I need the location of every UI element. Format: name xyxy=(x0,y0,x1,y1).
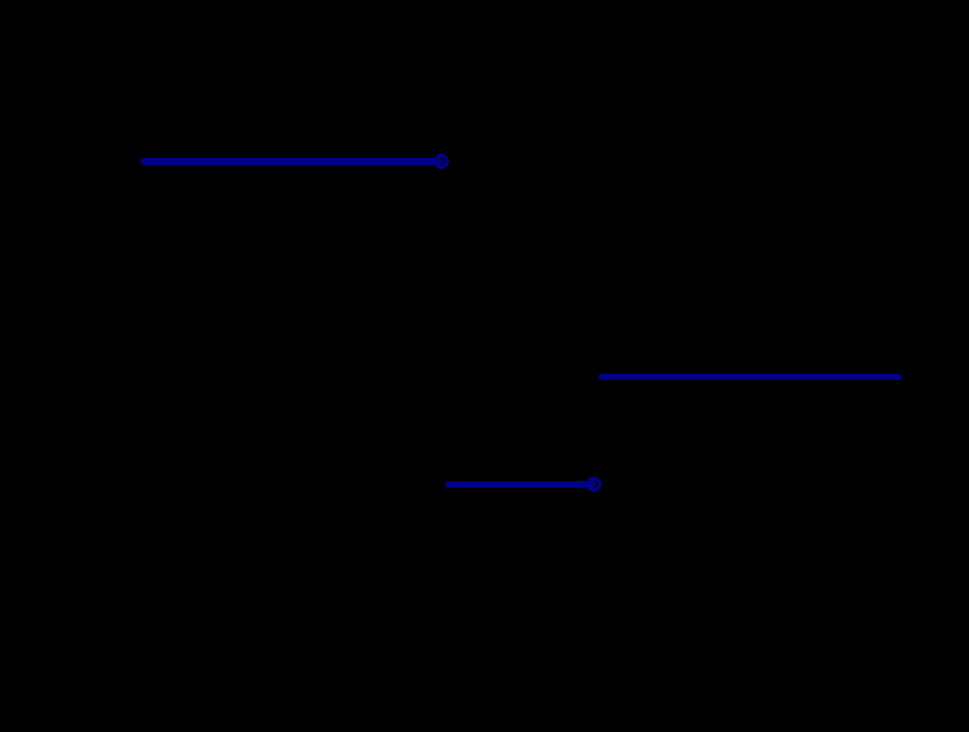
wire segment 3 (middle-low step level) xyxy=(449,481,592,488)
node marker 1 disk xyxy=(434,154,449,169)
wire overlap patch over ring 2 xyxy=(587,481,593,488)
wire segment 2 (right step level) xyxy=(602,374,900,380)
node marker 1 inner ring xyxy=(438,158,444,164)
node marker 2 inner ring xyxy=(591,481,597,487)
wire overlap patch over ring 1 xyxy=(435,158,441,165)
node marker 2 disk xyxy=(586,477,601,492)
wire segment 1 (top-left step level) xyxy=(144,158,440,165)
